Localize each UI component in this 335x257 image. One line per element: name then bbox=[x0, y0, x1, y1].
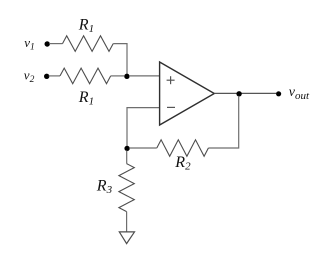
wire bbox=[129, 147, 157, 149]
label R2 bbox=[174, 154, 191, 173]
label R1 (bottom) bbox=[78, 89, 94, 108]
label v2 bbox=[24, 67, 35, 85]
node v1 bbox=[45, 41, 50, 46]
resistor R1 (top) bbox=[63, 36, 114, 52]
output node bbox=[236, 91, 241, 96]
feedback node bbox=[124, 146, 129, 151]
node vout terminal bbox=[276, 91, 281, 96]
wire bbox=[214, 92, 276, 94]
wire bbox=[208, 96, 238, 148]
label R1 (top) bbox=[78, 17, 94, 36]
resistor R2 bbox=[157, 140, 209, 157]
node v2 bbox=[44, 74, 49, 79]
junction node (summing) bbox=[124, 74, 129, 79]
ground bbox=[119, 232, 134, 244]
wire bbox=[113, 44, 127, 76]
op-amp U1 bbox=[160, 62, 215, 125]
resistor R1 (bottom) bbox=[60, 68, 111, 84]
wire bbox=[129, 75, 160, 77]
wire bbox=[126, 151, 128, 164]
resistor R3 bbox=[119, 164, 134, 212]
wire bbox=[126, 212, 128, 232]
label vout bbox=[289, 85, 310, 102]
wire bbox=[49, 75, 60, 77]
op-amp U1 inverting input marker (-) bbox=[167, 106, 175, 108]
label v1 bbox=[24, 35, 35, 53]
label R3 bbox=[96, 178, 113, 197]
wire bbox=[111, 75, 124, 77]
wire bbox=[49, 43, 62, 45]
op-amp U1 non-inverting input marker (+) bbox=[167, 76, 175, 84]
wire bbox=[127, 108, 160, 148]
